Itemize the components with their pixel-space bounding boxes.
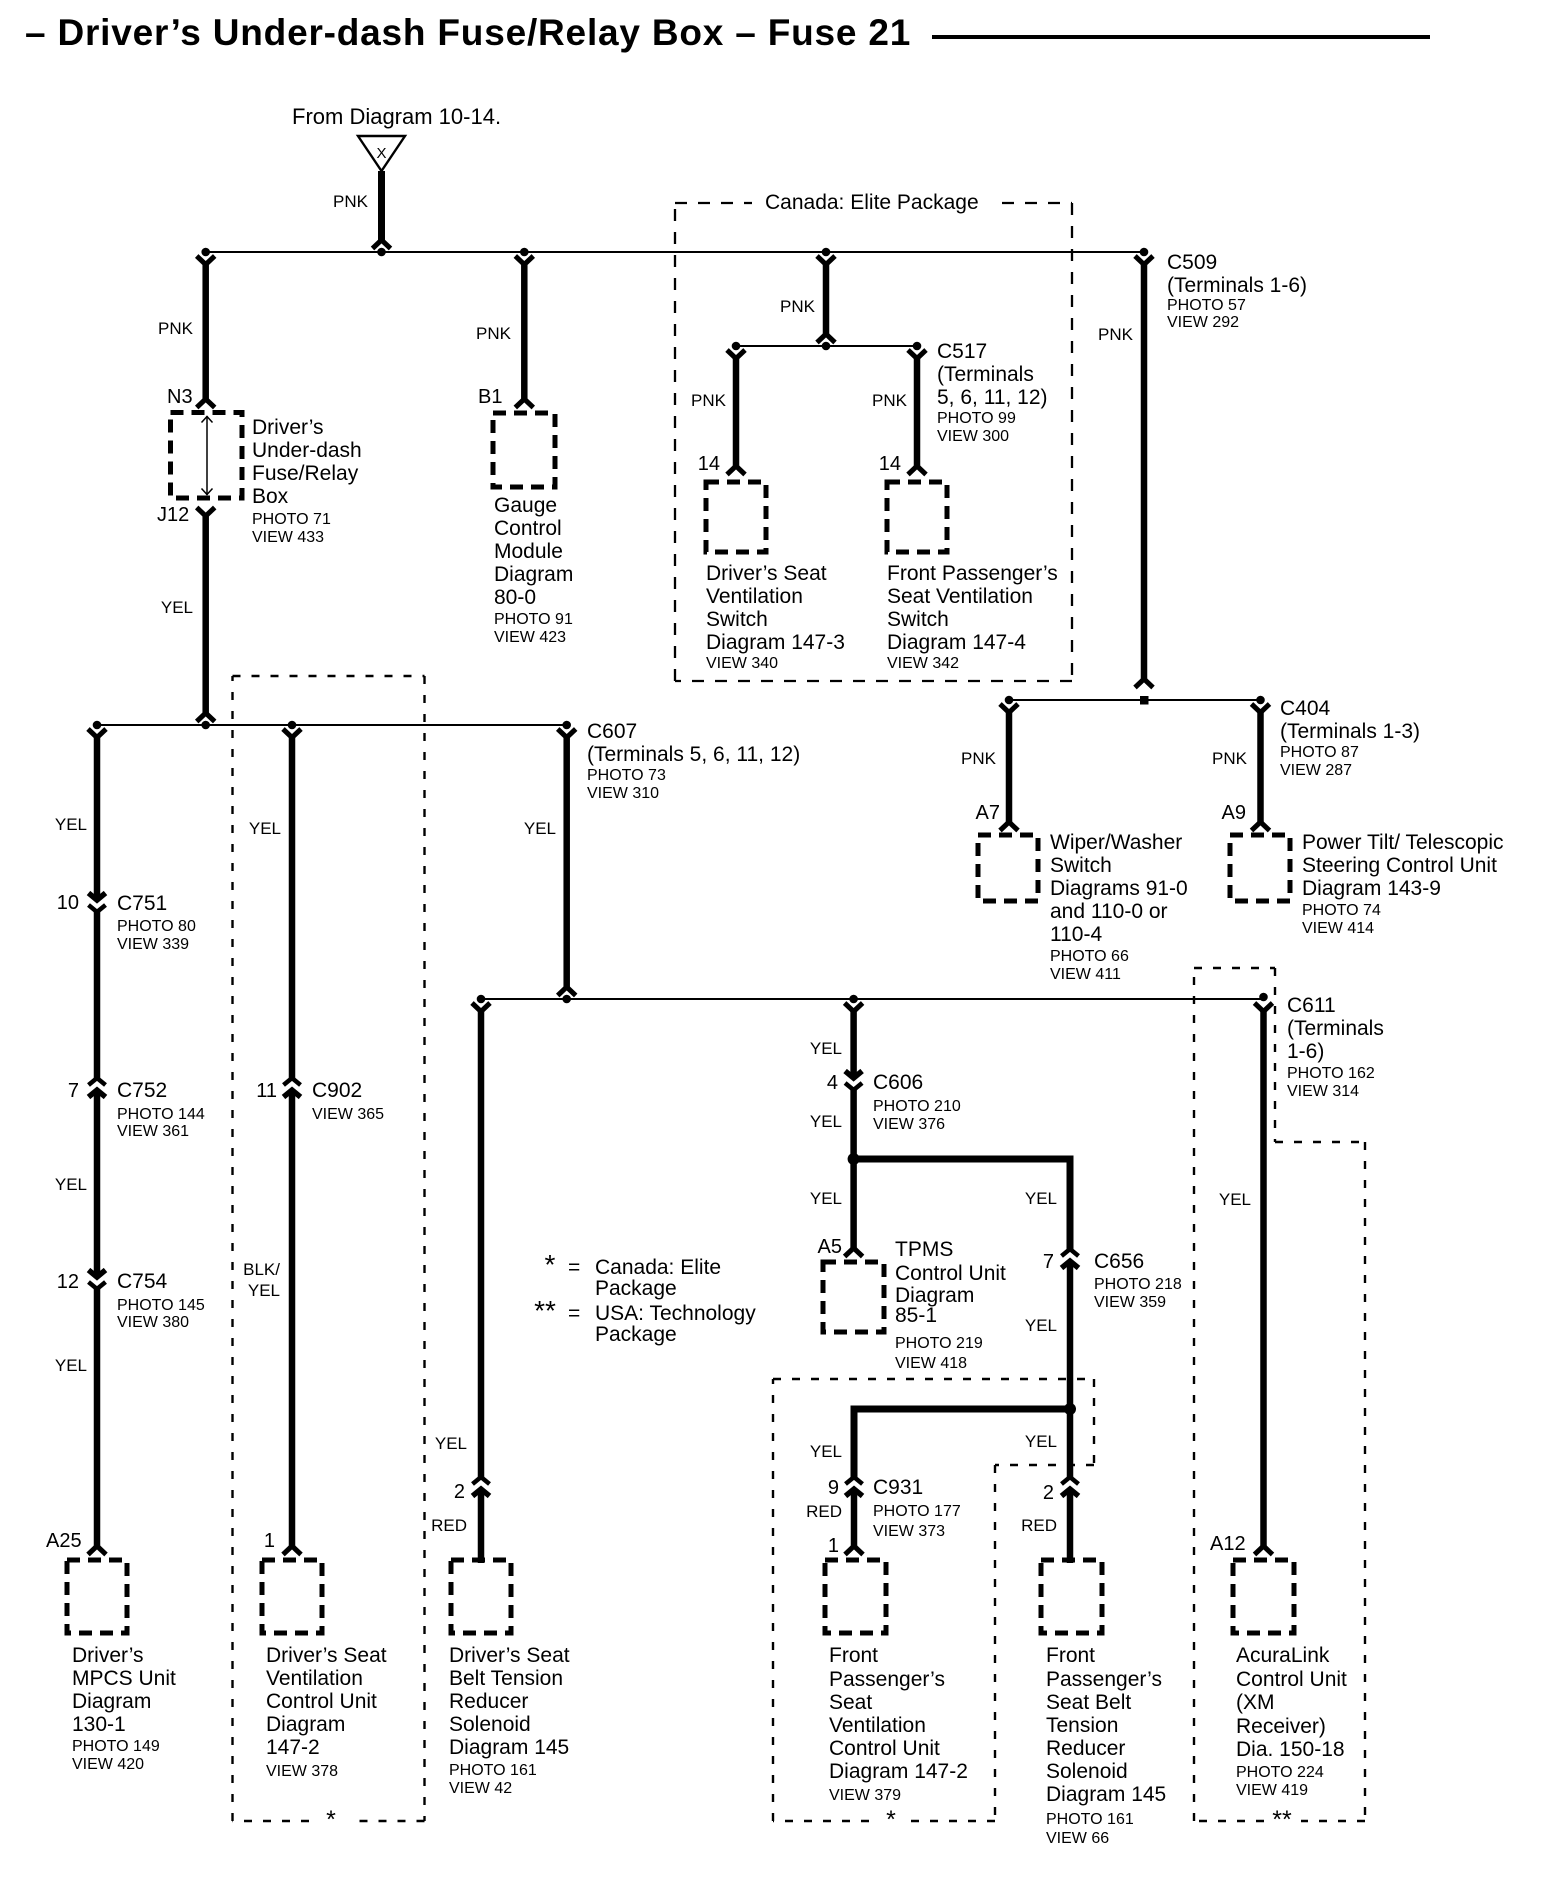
svg-text:C752: C752	[117, 1079, 167, 1102]
svg-text:Reducer: Reducer	[449, 1690, 528, 1713]
connector fork at bottom of C607 wire on bus E	[558, 987, 576, 996]
wire YEL: C754 to driver's MPCS unit A25	[94, 1287, 101, 1546]
svg-text:AcuraLink: AcuraLink	[1236, 1644, 1330, 1667]
bus B: horizontal distribution wire y=725	[97, 724, 567, 726]
svg-text:PHOTO 99: PHOTO 99	[937, 410, 1016, 427]
svg-text:Driver’s Seat: Driver’s Seat	[266, 1644, 387, 1667]
svg-text:PNK: PNK	[1212, 749, 1248, 768]
svg-text:Control Unit: Control Unit	[895, 1262, 1006, 1285]
svg-text:9: 9	[828, 1477, 839, 1499]
label component: Wiper/Washer Switch Diagrams 91-0 and 110-0 or 110-4	[1050, 831, 1188, 983]
label connector C754	[117, 1270, 205, 1331]
connector fork below bus E at TPMS drop	[845, 1003, 863, 1012]
svg-text:YEL: YEL	[810, 1189, 842, 1208]
svg-text:Package: Package	[595, 1323, 677, 1346]
wire BLK/YEL: C902 to driver's seat ventilation control unit	[289, 1091, 296, 1546]
wire PNK: bus A down to bus C (Canada package)	[823, 263, 830, 334]
svg-text:Front: Front	[829, 1644, 878, 1667]
svg-text:VIEW 339: VIEW 339	[117, 936, 189, 953]
wire PNK: bus D to wiper/washer switch A7	[1006, 711, 1013, 822]
component box: Front Passenger's Seat Ventilation Control Unit (dashed)	[825, 1560, 886, 1633]
svg-text:Diagram 147-2: Diagram 147-2	[829, 1760, 968, 1783]
label component: Front Passenger's Seat Belt Tension Reducer Solenoid Diagram 145	[1046, 1644, 1166, 1847]
label connector C656	[1094, 1250, 1182, 1311]
junction dot C509 wire on bus D	[1140, 696, 1149, 705]
junction dot bus B right end (C607)	[562, 721, 571, 730]
wire YEL: bus E down to AcuraLink control unit A12	[1260, 1010, 1267, 1546]
label component: Front Passenger's Seat Ventilation Switch Diagram 147-4	[887, 562, 1058, 672]
wire PNK: bus C to front passenger's seat ventilation switch	[914, 357, 921, 466]
svg-text:Driver’s Seat: Driver’s Seat	[449, 1644, 570, 1667]
svg-text:PHOTO 91: PHOTO 91	[494, 611, 573, 628]
connector fork below bus B left end	[88, 729, 106, 738]
svg-text:Ventilation: Ventilation	[829, 1714, 926, 1737]
svg-text:Receiver): Receiver)	[1236, 1715, 1326, 1738]
svg-text:PNK: PNK	[691, 391, 727, 410]
svg-text:Canada: Elite: Canada: Elite	[595, 1256, 721, 1279]
dashed region: Canada Elite Package (*) around front passenger's seat ventilation control unit	[773, 1379, 1094, 1821]
svg-text:C656: C656	[1094, 1250, 1144, 1273]
svg-text:C517: C517	[937, 340, 987, 363]
label BLK/YEL	[243, 1260, 280, 1300]
svg-text:PNK: PNK	[158, 319, 194, 338]
in-line connector (driver's seat belt, pin 2)	[473, 1477, 490, 1496]
label component: Driver's Seat Ventilation Control Unit Diagram 147-2	[266, 1644, 387, 1780]
in-line connector C656 (pin 7)	[1062, 1249, 1079, 1268]
svg-text:VIEW 292: VIEW 292	[1167, 314, 1239, 331]
wire RED: C931 to front passenger's seat ventilation control unit	[851, 1490, 858, 1546]
label component: TPMS Control Unit Diagram 85-1	[895, 1238, 1006, 1372]
connector fork below bus A at C509	[1135, 256, 1153, 265]
svg-text:VIEW 287: VIEW 287	[1280, 762, 1352, 779]
component box: Wiper/Washer Switch (dashed)	[978, 835, 1038, 901]
component box: TPMS Control Unit (dashed)	[823, 1262, 884, 1332]
svg-text:Control Unit: Control Unit	[1236, 1668, 1347, 1691]
legend: * = Canada: Elite Package	[545, 1249, 722, 1300]
connector fork at wiper/washer switch A7	[1000, 822, 1018, 831]
svg-text:(Terminals: (Terminals	[937, 363, 1034, 386]
svg-text:YEL: YEL	[55, 815, 87, 834]
svg-text:A12: A12	[1210, 1533, 1246, 1555]
svg-text:=: =	[568, 1302, 580, 1325]
svg-text:VIEW 42: VIEW 42	[449, 1780, 512, 1797]
svg-text:VIEW 379: VIEW 379	[829, 1787, 901, 1804]
svg-text:Dia. 150-18: Dia. 150-18	[1236, 1738, 1345, 1761]
component box: Driver's MPCS Unit (dashed)	[67, 1560, 127, 1633]
svg-text:4: 4	[827, 1072, 838, 1094]
connector fork below bus D at A7 drop	[1000, 704, 1018, 713]
svg-text:RED: RED	[431, 1516, 467, 1535]
svg-text:YEL: YEL	[810, 1112, 842, 1131]
dashed region: Canada Elite Package	[675, 203, 1072, 681]
svg-text:Driver’s: Driver’s	[252, 416, 324, 439]
svg-text:YEL: YEL	[1025, 1432, 1057, 1451]
junction dot bus A at B1 drop	[520, 248, 529, 257]
svg-text:5, 6, 11, 12): 5, 6, 11, 12)	[937, 386, 1048, 409]
svg-text:PNK: PNK	[872, 391, 908, 410]
svg-text:RED: RED	[1021, 1516, 1057, 1535]
svg-text:Switch: Switch	[1050, 854, 1112, 877]
svg-text:PHOTO 87: PHOTO 87	[1280, 744, 1359, 761]
svg-text:VIEW 411: VIEW 411	[1050, 966, 1121, 983]
connector fork at TPMS control unit A5	[845, 1248, 863, 1257]
svg-text:PHOTO 218: PHOTO 218	[1094, 1276, 1182, 1293]
svg-text:VIEW 378: VIEW 378	[266, 1763, 338, 1780]
dashed region: USA Technology Package (**) around C611 and AcuraLink control unit	[1194, 968, 1365, 1821]
svg-text:MPCS Unit: MPCS Unit	[72, 1667, 176, 1690]
svg-text:Module: Module	[494, 540, 563, 563]
svg-text:Diagram: Diagram	[266, 1713, 345, 1736]
svg-text:Switch: Switch	[887, 608, 949, 631]
junction dot C607 wire on bus E	[562, 995, 571, 1004]
svg-text:Diagram 143-9: Diagram 143-9	[1302, 877, 1441, 900]
junction dot bus B at C902 drop	[288, 721, 297, 730]
svg-text:VIEW 423: VIEW 423	[494, 629, 566, 646]
svg-text:(Terminals 5, 6, 11, 12): (Terminals 5, 6, 11, 12)	[587, 743, 800, 766]
svg-text:PNK: PNK	[1098, 325, 1134, 344]
svg-text:PHOTO 161: PHOTO 161	[1046, 1811, 1134, 1828]
svg-text:– Driver’s Under-dash Fuse/Rel: – Driver’s Under-dash Fuse/Relay Box – F…	[25, 12, 911, 53]
junction dot bus A left end (N3 drop)	[201, 248, 210, 257]
svg-text:Seat Belt: Seat Belt	[1046, 1691, 1131, 1714]
svg-text:Box: Box	[252, 485, 289, 508]
connector fork below bus A at Canada drop	[817, 256, 835, 265]
label component: Front Passenger's Seat Ventilation Control Unit Diagram 147-2	[829, 1644, 968, 1804]
svg-text:VIEW 314: VIEW 314	[1287, 1083, 1359, 1100]
svg-text:PHOTO 74: PHOTO 74	[1302, 902, 1381, 919]
component box: Driver's Seat Ventilation Control Unit (dashed)	[262, 1560, 322, 1633]
svg-text:80-0: 80-0	[494, 586, 536, 609]
title rule	[932, 35, 1430, 39]
connector fork at bottom of feed wire	[373, 240, 391, 249]
svg-text:Seat Ventilation: Seat Ventilation	[887, 585, 1033, 608]
svg-text:(Terminals 1-6): (Terminals 1-6)	[1167, 274, 1307, 297]
svg-text:Gauge: Gauge	[494, 494, 557, 517]
svg-text:YEL: YEL	[55, 1175, 87, 1194]
svg-text:A7: A7	[976, 802, 1000, 824]
svg-text:J12: J12	[157, 504, 189, 526]
junction dot bus E left end	[477, 995, 486, 1004]
svg-text:VIEW 373: VIEW 373	[873, 1523, 945, 1540]
svg-text:12: 12	[57, 1271, 79, 1293]
label connector C517 (Terminals 5, 6, 11, 12)	[937, 340, 1048, 445]
svg-text:Front Passenger’s: Front Passenger’s	[887, 562, 1058, 585]
in-line connector C931 (pin 9)	[846, 1477, 863, 1496]
connector fork below bus A at N3 drop	[197, 256, 215, 265]
svg-text:**: **	[534, 1295, 556, 1326]
svg-text:Reducer: Reducer	[1046, 1737, 1125, 1760]
svg-text:C902: C902	[312, 1079, 362, 1102]
fuse element symbol inside fuse/relay box (double arrow)	[202, 416, 213, 495]
svg-text:7: 7	[1043, 1251, 1054, 1273]
svg-text:PHOTO 224: PHOTO 224	[1236, 1764, 1324, 1781]
label connector C611 (Terminals 1-6)	[1287, 994, 1384, 1100]
svg-text:7: 7	[68, 1080, 79, 1102]
connector fork at bottom of C509 wire on bus D	[1135, 679, 1153, 688]
svg-text:USA: Technology: USA: Technology	[595, 1302, 756, 1325]
wire YEL: bus E to in-line connector (pin 2, driver's side)	[478, 1010, 485, 1479]
label component: AcuraLink Control Unit (XM Receiver) Dia. 150-18	[1236, 1644, 1347, 1799]
svg-text:C509: C509	[1167, 251, 1217, 274]
svg-text:VIEW 433: VIEW 433	[252, 529, 324, 546]
svg-text:PHOTO 219: PHOTO 219	[895, 1335, 983, 1352]
svg-text:PHOTO 161: PHOTO 161	[449, 1762, 537, 1779]
junction dot J12 wire on bus B	[201, 721, 210, 730]
svg-text:PNK: PNK	[333, 192, 369, 211]
svg-text:Diagram 145: Diagram 145	[449, 1736, 569, 1759]
wire YEL: junction J2 left and down to in-line connector C931	[854, 1409, 1070, 1479]
svg-text:BLK/: BLK/	[243, 1260, 280, 1279]
label component: Driver's Under-dash Fuse/Relay Box	[252, 416, 362, 546]
connector fork below bus D at A9 drop	[1252, 704, 1270, 713]
junction dot bus E right end (C611)	[1259, 993, 1268, 1002]
connector fork at front passenger's seat ventilation control unit	[845, 1546, 863, 1555]
junction dot J1 (TPMS branch)	[848, 1153, 860, 1165]
svg-text:Diagrams 91-0: Diagrams 91-0	[1050, 877, 1188, 900]
wire PNK: bus A down to gauge control module B1	[521, 263, 528, 399]
svg-text:and 110-0 or: and 110-0 or	[1050, 900, 1168, 923]
svg-text:C611: C611	[1287, 994, 1336, 1017]
wire PNK: bus A down to bus D via C509	[1141, 263, 1148, 679]
svg-text:PNK: PNK	[476, 324, 512, 343]
svg-text:14: 14	[879, 453, 901, 475]
svg-text:YEL: YEL	[248, 1281, 280, 1300]
junction dot: feed wire on bus A	[377, 248, 386, 257]
svg-text:Solenoid: Solenoid	[449, 1713, 531, 1736]
svg-text:TPMS: TPMS	[895, 1238, 953, 1261]
connector fork below bus C right	[908, 350, 926, 359]
svg-text:PHOTO 162: PHOTO 162	[1287, 1065, 1375, 1082]
junction dot J2 (belt branch)	[1064, 1403, 1076, 1415]
in-line connector C606 (pin 4)	[845, 1071, 862, 1090]
svg-text:C754: C754	[117, 1270, 168, 1293]
svg-text:PHOTO 144: PHOTO 144	[117, 1106, 205, 1123]
wire RED: in-line connector to front passenger's seat belt tension reducer solenoid	[1067, 1490, 1074, 1563]
svg-text:RED: RED	[806, 1502, 842, 1521]
svg-text:PNK: PNK	[780, 297, 816, 316]
svg-text:Passenger’s: Passenger’s	[829, 1668, 945, 1691]
svg-text:C751: C751	[117, 892, 167, 915]
wire YEL: junction J1 right and down to in-line connector C656	[854, 1159, 1070, 1251]
svg-text:2: 2	[1043, 1482, 1054, 1504]
label component: Driver's MPCS Unit Diagram 130-1	[72, 1644, 176, 1773]
connector fork below bus B at C607	[558, 729, 576, 738]
connector fork J12 (below fuse box)	[197, 508, 215, 517]
svg-text:YEL: YEL	[161, 598, 193, 617]
svg-text:=: =	[568, 1256, 580, 1279]
junction dot Canada drop on bus C	[822, 342, 831, 351]
wire YEL: bus E to in-line connector C606	[850, 1010, 857, 1077]
label connector C751	[117, 892, 196, 953]
label connector C902	[312, 1079, 384, 1123]
junction dot bus B left end	[93, 721, 102, 730]
svg-text:A25: A25	[46, 1530, 82, 1552]
svg-text:PHOTO 145: PHOTO 145	[117, 1297, 205, 1314]
wire PNK: bus C to driver's seat ventilation switch	[733, 357, 740, 466]
svg-text:*: *	[886, 1806, 896, 1834]
label component: Power Tilt/ Telescopic Steering Control Unit Diagram 143-9	[1302, 831, 1504, 937]
label component: Driver's Seat Ventilation Switch Diagram 147-3	[706, 562, 845, 672]
connector fork at front passenger's seat ventilation switch	[908, 466, 926, 475]
svg-text:X: X	[376, 145, 386, 162]
svg-text:*: *	[545, 1249, 556, 1280]
svg-text:1: 1	[828, 1535, 839, 1557]
svg-text:147-2: 147-2	[266, 1736, 320, 1759]
component box: Front Passenger's Seat Belt Tension Reducer Solenoid (dashed)	[1041, 1560, 1102, 1633]
svg-text:PHOTO 149: PHOTO 149	[72, 1738, 160, 1755]
svg-text:Ventilation: Ventilation	[706, 585, 803, 608]
label connector C607 (Terminals 5, 6, 11, 12)	[587, 720, 800, 802]
svg-text:Tension: Tension	[1046, 1714, 1118, 1737]
svg-text:YEL: YEL	[249, 819, 281, 838]
wire YEL: C751 to C752	[94, 910, 101, 1080]
svg-text:VIEW 380: VIEW 380	[117, 1314, 189, 1331]
connector fork at driver's seat ventilation switch	[727, 466, 745, 475]
svg-text:Power Tilt/ Telescopic: Power Tilt/ Telescopic	[1302, 831, 1504, 854]
svg-text:Seat: Seat	[829, 1691, 872, 1714]
svg-text:14: 14	[698, 453, 720, 475]
svg-text:11: 11	[256, 1080, 277, 1102]
svg-text:*: *	[326, 1806, 336, 1834]
connector fork at power tilt/telescopic steering control unit A9	[1252, 822, 1270, 831]
bus A: horizontal distribution wire y=252	[206, 251, 1145, 253]
wire RED: in-line connector to driver's seat belt tension reducer solenoid	[478, 1490, 485, 1563]
wire YEL: J12 down to bus B	[202, 515, 209, 714]
connector fork at bottom of Canada drop wire	[817, 334, 835, 343]
svg-text:Canada: Elite Package: Canada: Elite Package	[765, 191, 979, 214]
svg-text:Switch: Switch	[706, 608, 768, 631]
svg-text:YEL: YEL	[55, 1356, 87, 1375]
svg-text:PHOTO 80: PHOTO 80	[117, 918, 196, 935]
in-line connector C754 (pin 12)	[89, 1270, 106, 1289]
svg-text:A9: A9	[1222, 802, 1246, 824]
svg-text:VIEW 420: VIEW 420	[72, 1756, 144, 1773]
svg-text:C931: C931	[873, 1476, 923, 1499]
connector fork below bus A at B1 drop	[515, 256, 533, 265]
svg-text:YEL: YEL	[435, 1434, 467, 1453]
in-line connector (front passenger's seat belt, pin 2)	[1062, 1477, 1079, 1496]
component box: Front Passenger's Seat Ventilation Switch (dashed)	[887, 482, 947, 552]
svg-text:Diagram 147-3: Diagram 147-3	[706, 631, 845, 654]
svg-text:B1: B1	[478, 386, 502, 408]
svg-text:1-6): 1-6)	[1287, 1040, 1324, 1063]
svg-text:VIEW 340: VIEW 340	[706, 655, 778, 672]
svg-text:Front: Front	[1046, 1644, 1095, 1667]
component box: Driver's Seat Belt Tension Reducer Solenoid (dashed)	[451, 1560, 511, 1633]
wire PNK: bus A down to fuse box terminal N3	[202, 263, 209, 399]
component box: AcuraLink Control Unit (dashed)	[1233, 1560, 1294, 1633]
svg-text:Solenoid: Solenoid	[1046, 1760, 1128, 1783]
junction dot bus C right end	[913, 342, 922, 351]
connector fork N3 (wire end at fuse box)	[197, 399, 215, 408]
svg-text:PHOTO 66: PHOTO 66	[1050, 948, 1129, 965]
junction dot bus A right end (C509)	[1140, 248, 1149, 257]
wire YEL: C656 down to junction J2	[1067, 1262, 1074, 1409]
svg-text:Diagram: Diagram	[72, 1690, 151, 1713]
svg-text:C606: C606	[873, 1071, 923, 1094]
svg-text:(Terminals 1-3): (Terminals 1-3)	[1280, 720, 1420, 743]
svg-text:VIEW 361: VIEW 361	[117, 1123, 189, 1140]
component box: Driver's Seat Ventilation Switch (dashed)	[706, 482, 766, 552]
wire YEL: bus B down to bus E via C607	[563, 736, 570, 987]
svg-text:VIEW 365: VIEW 365	[312, 1106, 384, 1123]
svg-text:**: **	[1272, 1806, 1292, 1834]
svg-text:C404: C404	[1280, 697, 1331, 720]
svg-text:Wiper/Washer: Wiper/Washer	[1050, 831, 1182, 854]
junction dot bus C left end	[732, 342, 741, 351]
svg-text:Under-dash: Under-dash	[252, 439, 362, 462]
svg-text:YEL: YEL	[1025, 1189, 1057, 1208]
svg-text:Diagram 147-4: Diagram 147-4	[887, 631, 1026, 654]
svg-text:YEL: YEL	[1025, 1316, 1057, 1335]
svg-text:PHOTO 73: PHOTO 73	[587, 767, 666, 784]
label connector C404 (Terminals 1-3)	[1280, 697, 1420, 779]
wire YEL: junction J2 down to in-line connector (pin 2, passenger side)	[1067, 1409, 1074, 1479]
svg-text:VIEW 414: VIEW 414	[1302, 920, 1374, 937]
wire YEL: C606 to junction J1	[850, 1088, 857, 1160]
svg-text:Ventilation: Ventilation	[266, 1667, 363, 1690]
svg-text:10: 10	[57, 892, 79, 914]
wire PNK: off-page connector X down to bus A	[378, 171, 385, 240]
svg-text:C607: C607	[587, 720, 637, 743]
svg-text:YEL: YEL	[810, 1039, 842, 1058]
svg-text:Control Unit: Control Unit	[829, 1737, 940, 1760]
wire PNK: bus D to power tilt/telescopic steering control unit A9	[1257, 711, 1264, 822]
connector fork below bus E at C611	[1255, 1003, 1273, 1012]
connector fork below bus C left	[727, 350, 745, 359]
svg-text:Steering Control Unit: Steering Control Unit	[1302, 854, 1497, 877]
svg-text:(XM: (XM	[1236, 1691, 1275, 1714]
junction dot bus D right end (A9 drop)	[1256, 696, 1265, 705]
wire YEL: junction J1 down to TPMS control unit A5	[850, 1159, 857, 1248]
svg-text:VIEW 342: VIEW 342	[887, 655, 959, 672]
svg-text:1: 1	[264, 1530, 275, 1552]
label component: Driver's Seat Belt Tension Reducer Solenoid Diagram 145	[449, 1644, 570, 1797]
svg-text:VIEW 310: VIEW 310	[587, 785, 659, 802]
svg-text:Fuse/Relay: Fuse/Relay	[252, 462, 359, 485]
label connector C752	[117, 1079, 205, 1140]
svg-text:A5: A5	[818, 1236, 842, 1258]
bus D: horizontal wire y=700 (C404 branch)	[1009, 699, 1261, 701]
in-line connector C902 (pin 11)	[284, 1078, 301, 1097]
connector fork at bottom of J12 wire on bus B	[197, 713, 215, 722]
svg-text:PNK: PNK	[961, 749, 997, 768]
svg-text:YEL: YEL	[524, 819, 556, 838]
svg-text:Driver’s: Driver’s	[72, 1644, 144, 1667]
in-line connector C752 (pin 7)	[89, 1078, 106, 1097]
connector fork below bus B at C902 drop	[283, 729, 301, 738]
dashed region: Canada Elite Package (*) around driver's seat ventilation control unit	[233, 676, 425, 1821]
svg-text:PHOTO 57: PHOTO 57	[1167, 297, 1246, 314]
junction dot bus D left end (A7 drop)	[1005, 696, 1014, 705]
label connector C606	[873, 1071, 961, 1133]
svg-text:VIEW 376: VIEW 376	[873, 1116, 945, 1133]
component box: Driver's Under-dash Fuse/Relay Box (dashed)	[171, 413, 243, 499]
svg-text:YEL: YEL	[810, 1442, 842, 1461]
svg-text:VIEW 300: VIEW 300	[937, 428, 1009, 445]
component box: Gauge Control Module (dashed)	[493, 413, 555, 487]
connector fork at driver's seat ventilation control unit	[283, 1546, 301, 1555]
svg-text:130-1: 130-1	[72, 1713, 126, 1736]
component box: Power Tilt/Telescopic Steering Control Unit (dashed)	[1230, 835, 1290, 901]
svg-text:From Diagram 10-14.: From Diagram 10-14.	[292, 104, 501, 129]
junction dot bus E at TPMS drop	[849, 995, 858, 1004]
connector fork at driver's MPCS unit A25	[88, 1546, 106, 1555]
svg-text:PHOTO 177: PHOTO 177	[873, 1503, 961, 1520]
junction dot bus A at Canada drop	[822, 248, 831, 257]
svg-text:PHOTO 210: PHOTO 210	[873, 1098, 961, 1115]
svg-text:2: 2	[454, 1481, 465, 1503]
